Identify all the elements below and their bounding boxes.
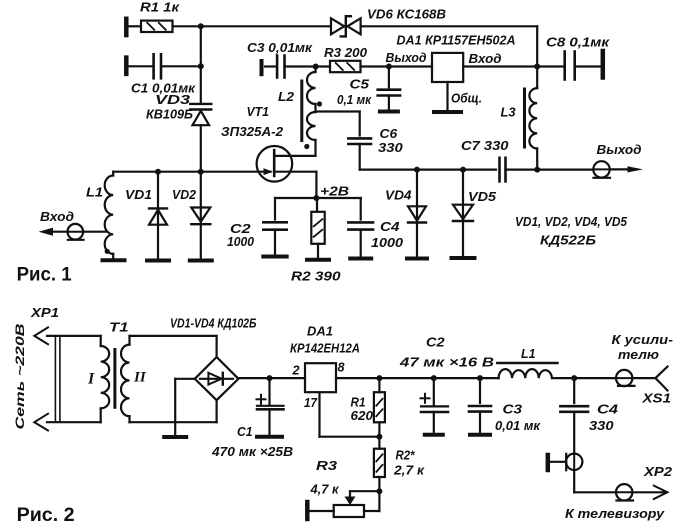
label C1 0,01мк [131, 81, 196, 96]
terminal stub [305, 502, 310, 519]
wire [316, 65, 330, 67]
wire [317, 244, 319, 258]
wire [310, 510, 334, 512]
wire [537, 169, 593, 171]
label К усили- [612, 332, 674, 347]
svg-text:Вход: Вход [469, 51, 502, 66]
junction dot [414, 167, 420, 173]
capacitor C4 [560, 378, 588, 454]
label 8 [338, 360, 346, 375]
label R2* [396, 448, 416, 463]
wire [175, 379, 195, 435]
connector Вход [68, 224, 84, 240]
svg-text:1000: 1000 [227, 234, 255, 249]
label C6 [380, 126, 399, 141]
svg-text:XS1: XS1 [641, 391, 671, 406]
transformer T1 primary [101, 336, 110, 422]
wire [359, 144, 361, 170]
capacitor C2 [421, 378, 448, 433]
wire [161, 65, 201, 67]
plus [257, 395, 266, 404]
label 17 [304, 395, 318, 410]
label R2 390 [291, 269, 341, 284]
arrow [34, 327, 48, 344]
svg-text:C4: C4 [597, 402, 619, 417]
wire [129, 25, 142, 27]
winding dot [317, 101, 322, 106]
connector body [55, 336, 60, 422]
svg-text:VD3: VD3 [155, 92, 191, 107]
capacitor C1 [257, 378, 284, 434]
svg-text:Рис. 2: Рис. 2 [17, 505, 75, 526]
ground [147, 259, 169, 263]
arrow [39, 228, 53, 236]
label 620 [351, 408, 374, 423]
svg-text:C2: C2 [426, 335, 445, 350]
resistor R3 [330, 61, 361, 72]
terminal stub [546, 455, 551, 470]
label 2 [292, 363, 301, 378]
label VD3 [155, 92, 191, 107]
wire [315, 172, 317, 198]
svg-text:C5: C5 [350, 77, 370, 92]
svg-text:Вход: Вход [40, 209, 74, 224]
label +2В [320, 184, 349, 199]
label VD1-VD4 КД102Б [170, 316, 257, 331]
label L3 [501, 105, 517, 120]
terminal bar [380, 110, 398, 114]
junction dot [376, 434, 382, 440]
ground [307, 258, 329, 262]
label Выход [597, 142, 642, 157]
wire [360, 169, 496, 171]
label C4 [597, 402, 619, 417]
svg-text:47 мк ×16 В: 47 мк ×16 В [399, 355, 494, 370]
svg-text:C1: C1 [237, 424, 253, 439]
varicap VD3 [190, 104, 211, 125]
label КД522Б [540, 233, 596, 248]
svg-text:ЗП325А-2: ЗП325А-2 [221, 124, 284, 139]
label C5 [350, 77, 370, 92]
junction dot [376, 375, 382, 381]
wire [275, 198, 316, 220]
label L1 [86, 185, 103, 200]
label C7 330 [461, 138, 509, 153]
wire [574, 470, 616, 492]
svg-text:L2: L2 [278, 89, 295, 104]
svg-text:Общ.: Общ. [451, 91, 482, 106]
svg-text:0,01 мк: 0,01 мк [495, 418, 541, 433]
wire [632, 377, 655, 379]
wire [274, 230, 276, 255]
ground [103, 258, 125, 262]
capacitor C6 [348, 138, 371, 144]
wire [610, 168, 628, 170]
wire [361, 65, 433, 67]
svg-text:XP1: XP1 [30, 305, 59, 320]
inductor L1 [105, 172, 114, 259]
junction dot [571, 375, 577, 381]
wire [238, 377, 305, 379]
wire [47, 335, 101, 337]
wire [378, 477, 380, 491]
svg-text:L3: L3 [501, 105, 517, 120]
svg-text:C6: C6 [380, 126, 399, 141]
svg-text:R3: R3 [316, 458, 338, 473]
label VT1 [247, 104, 270, 119]
capacitor C3 [469, 378, 491, 433]
label C4 [380, 219, 400, 234]
label II [133, 370, 147, 386]
ground [350, 257, 371, 261]
label Сеть ~220В [13, 323, 27, 429]
label VD4 [385, 188, 412, 203]
winding dot [304, 144, 309, 149]
svg-text:VD6 КС168В: VD6 КС168В [367, 7, 446, 22]
arrow [628, 166, 644, 172]
svg-text:VT1: VT1 [247, 104, 270, 119]
junction dot [155, 169, 161, 175]
junction dot [376, 488, 382, 494]
svg-text:КР142ЕН12А: КР142ЕН12А [290, 341, 360, 356]
transistor VT1 [257, 146, 317, 182]
capacitor C5 [378, 67, 400, 110]
svg-text:T1: T1 [109, 320, 129, 335]
svg-text:R1 1к: R1 1к [140, 0, 181, 15]
wire [47, 421, 101, 423]
wire [200, 125, 202, 172]
label VD5 [468, 189, 497, 204]
svg-text:L1: L1 [86, 185, 103, 200]
label XP2 [643, 464, 673, 479]
svg-text:4,7 к: 4,7 к [310, 482, 340, 497]
label I [87, 371, 95, 388]
label L2 [278, 89, 295, 104]
svg-text:Выход: Выход [386, 50, 427, 65]
capacitor C2 [263, 222, 286, 229]
svg-text:DA1: DA1 [307, 324, 333, 339]
wire [632, 491, 666, 493]
label 1000 [371, 235, 404, 250]
wiper arrow [345, 497, 356, 506]
junction dot [534, 64, 540, 70]
svg-text:C3 0,01мк: C3 0,01мк [247, 40, 313, 55]
label C2 [230, 221, 251, 236]
label 0,1 мк [337, 92, 372, 107]
svg-text:8: 8 [338, 360, 346, 375]
junction dot [313, 64, 319, 70]
terminal stub [124, 19, 129, 35]
label VD2 [172, 187, 197, 202]
label Общ. [451, 91, 482, 106]
svg-text:VD4: VD4 [385, 188, 412, 203]
junction dot [477, 375, 483, 381]
svg-text:+2В: +2В [320, 184, 349, 199]
svg-text:330: 330 [378, 140, 404, 155]
wire [350, 491, 379, 499]
label 330 [589, 418, 614, 433]
resistor R2 [374, 449, 385, 477]
capacitor C4 [348, 222, 373, 229]
junction dot [198, 63, 204, 69]
diode VD1 [149, 172, 167, 259]
wire [463, 65, 537, 67]
label Рис. 1 [17, 265, 72, 286]
capacitor C7 [500, 158, 538, 182]
zener VD6 [331, 16, 361, 36]
wire [361, 26, 538, 66]
wire [360, 230, 362, 257]
wire [364, 491, 379, 511]
junction dot [198, 23, 204, 29]
svg-text:R2*: R2* [396, 448, 416, 463]
wire [83, 231, 106, 233]
junction dot [534, 167, 540, 173]
svg-text:К усили-: К усили- [612, 332, 674, 347]
label Рис. 2 [17, 505, 75, 526]
junction dot [460, 167, 466, 173]
label C3 0,01мк [247, 40, 313, 55]
svg-text:Рис. 1: Рис. 1 [17, 265, 72, 286]
label VD1 [125, 187, 152, 202]
arrow [654, 486, 668, 499]
label R1 1к [140, 0, 181, 15]
svg-text:C8 0,1мк: C8 0,1мк [546, 35, 611, 50]
svg-text:VD1, VD2, VD4, VD5: VD1, VD2, VD4, VD5 [515, 214, 628, 229]
junction dot [198, 169, 204, 175]
label C3 [503, 402, 523, 417]
wire [314, 67, 316, 73]
wire [173, 25, 331, 27]
label XP1 [30, 305, 59, 320]
inductor L1 [499, 369, 552, 378]
svg-text:К телевизору: К телевизору [565, 506, 665, 521]
svg-text:0,1 мк: 0,1 мк [337, 92, 372, 107]
wire [552, 377, 616, 379]
capacitor C3 [265, 56, 285, 78]
wire [129, 65, 154, 67]
label КВ109Б [146, 107, 193, 122]
label C1 [237, 424, 253, 439]
label DA1 КР1157ЕН502А [397, 33, 516, 48]
svg-text:2: 2 [292, 363, 301, 378]
svg-text:VD5: VD5 [468, 189, 497, 204]
label R3 [316, 458, 338, 473]
core [497, 362, 557, 365]
label КР142ЕН12А [290, 341, 360, 356]
svg-text:R3 200: R3 200 [324, 45, 368, 60]
wire [113, 171, 270, 173]
svg-text:XP2: XP2 [643, 464, 673, 479]
terminal stub [601, 51, 606, 78]
transformer T1 secondary [121, 336, 130, 422]
bridge VD1-VD4 [195, 357, 239, 400]
label L1 [521, 346, 536, 361]
wire [285, 65, 316, 67]
label VD6 КС168В [367, 7, 446, 22]
svg-text:VD1: VD1 [125, 187, 152, 202]
svg-text:C7 330: C7 330 [461, 138, 509, 153]
ground [263, 255, 286, 259]
svg-text:L1: L1 [521, 346, 536, 361]
svg-text:VD1-VD4 КД102Б: VD1-VD4 КД102Б [170, 316, 257, 331]
label C8 0,1мк [546, 35, 611, 50]
svg-text:620: 620 [351, 408, 374, 423]
connector XP2 [616, 484, 633, 500]
diode VD4 [408, 170, 426, 257]
potentiometer R3 [334, 505, 364, 517]
label Вход [40, 209, 74, 224]
label R1 [351, 395, 366, 410]
diode VD2 [191, 172, 210, 259]
terminal stub [260, 61, 264, 74]
wire [316, 198, 360, 220]
svg-text:C4: C4 [380, 219, 400, 234]
label 0,01 мк [495, 418, 541, 433]
capacitor C1 [154, 54, 161, 78]
wire [130, 400, 217, 422]
label 330 [378, 140, 404, 155]
label ЗП325А-2 [221, 124, 284, 139]
label 2,7 к [393, 463, 426, 478]
label 470 мк×25В [211, 444, 293, 459]
wire [550, 461, 566, 463]
fork XS1 [656, 367, 668, 391]
svg-text:1000: 1000 [371, 235, 404, 250]
wire [336, 377, 499, 379]
svg-text:470 мк ×25В: 470 мк ×25В [211, 444, 293, 459]
svg-text:Сеть ~220В: Сеть ~220В [13, 323, 27, 429]
wire [378, 422, 380, 448]
terminal stub [124, 58, 129, 74]
svg-text:R2 390: R2 390 [291, 269, 341, 284]
ground [452, 256, 475, 260]
svg-text:КД522Б: КД522Б [540, 233, 596, 248]
label К телевизору [565, 506, 665, 521]
label R3 200 [324, 45, 368, 60]
svg-text:I: I [87, 371, 95, 388]
wire [130, 336, 217, 357]
label телю [618, 347, 659, 362]
inductor L3 [525, 67, 538, 170]
svg-text:2,7 к: 2,7 к [393, 463, 426, 478]
diode VD5 [453, 170, 473, 256]
junction dot [313, 195, 319, 201]
core [113, 350, 116, 408]
wire [200, 26, 202, 103]
connector XS1 [616, 370, 635, 386]
wire [378, 378, 380, 392]
resistor R1 [141, 21, 173, 32]
arrow [34, 414, 48, 431]
wire [46, 231, 68, 233]
label Вход [469, 51, 502, 66]
plus [421, 394, 430, 403]
svg-text:VD2: VD2 [172, 187, 197, 202]
svg-text:телю: телю [618, 347, 659, 362]
svg-text:DA1 КР1157ЕН502А: DA1 КР1157ЕН502А [397, 33, 516, 48]
svg-text:II: II [133, 370, 147, 386]
ground [190, 259, 212, 263]
connector Выход [593, 161, 610, 178]
gate arrow [264, 168, 273, 175]
op-amp DA1 [432, 53, 463, 82]
label 1000 [227, 234, 255, 249]
junction dot [431, 375, 437, 381]
label 47 мк×16В [399, 355, 494, 370]
capacitor C8 [537, 52, 600, 80]
ground [470, 433, 490, 437]
connector Вход ТВ [566, 454, 582, 471]
label Выход [386, 50, 427, 65]
ground [425, 433, 443, 437]
svg-text:C3: C3 [503, 402, 523, 417]
label C2 [426, 335, 445, 350]
ground [434, 110, 461, 114]
wire [316, 112, 360, 136]
svg-text:Выход: Выход [597, 142, 642, 157]
junction dot [386, 64, 392, 70]
ground [407, 257, 427, 261]
ground [257, 435, 282, 439]
svg-text:КВ109Б: КВ109Б [146, 107, 193, 122]
wire [316, 198, 318, 212]
winding dot [105, 249, 110, 254]
label DA1 [307, 324, 333, 339]
junction dot [267, 375, 273, 381]
label VD1, VD2, VD4, VD5 [515, 214, 628, 229]
regulator DA1 [305, 363, 336, 392]
inductor L2 [302, 72, 316, 156]
label 4,7 к [310, 482, 340, 497]
wire pin17 [320, 392, 380, 437]
svg-text:330: 330 [589, 418, 614, 433]
svg-text:17: 17 [304, 395, 318, 410]
resistor R1 [374, 392, 385, 422]
label XS1 [641, 391, 671, 406]
resistor R2 [311, 212, 324, 244]
label T1 [109, 320, 129, 335]
wire [446, 82, 448, 110]
ground [164, 435, 186, 439]
